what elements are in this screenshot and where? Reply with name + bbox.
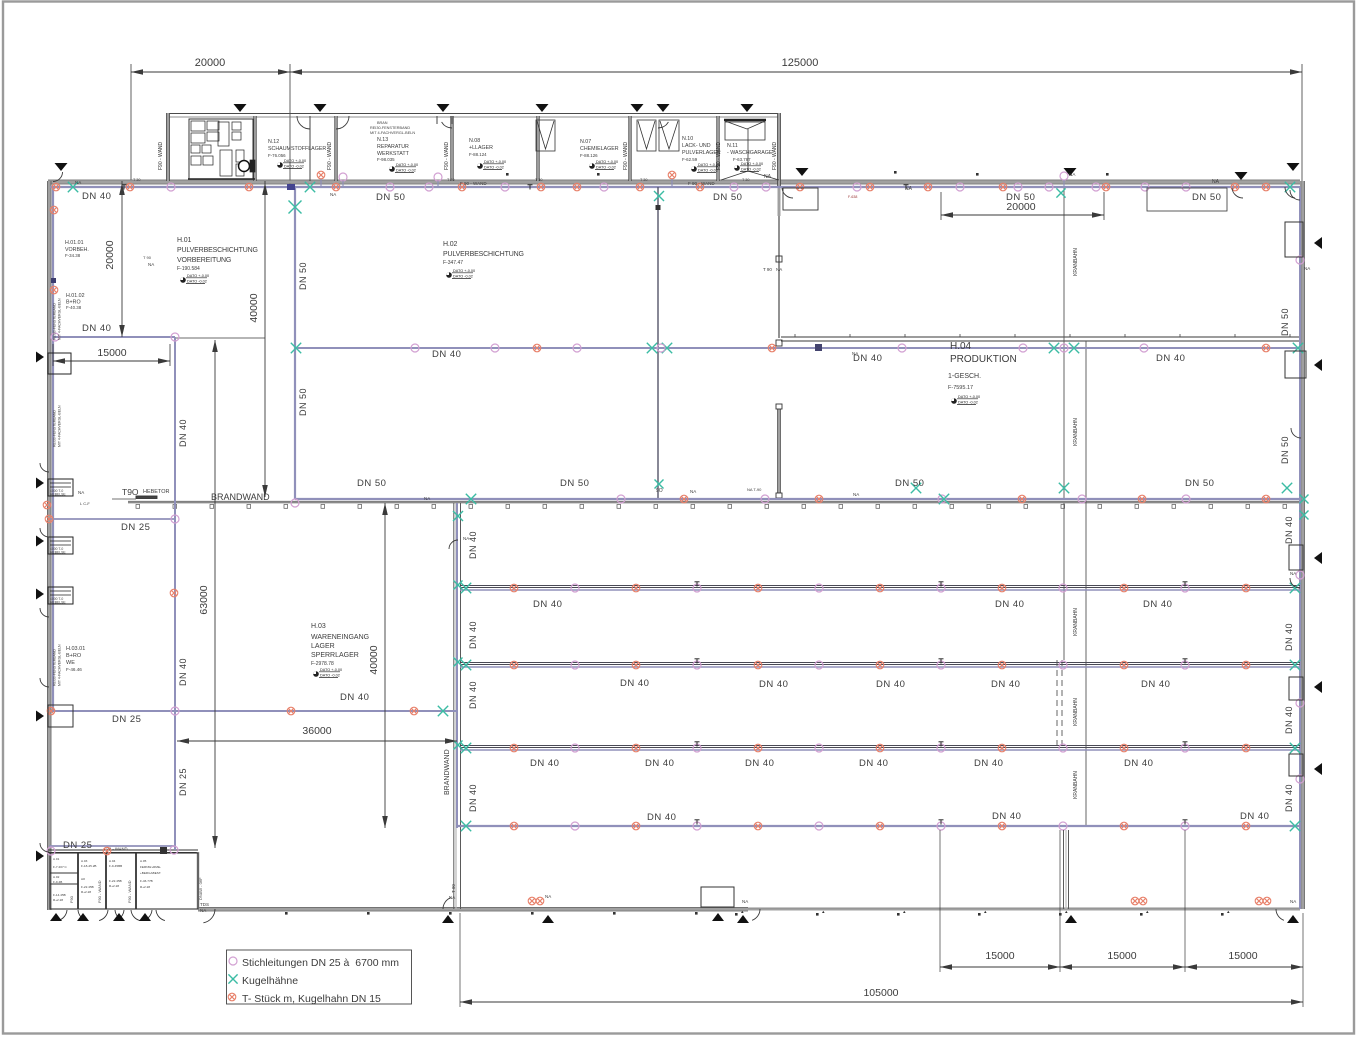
svg-text:VORBEREITUNG: VORBEREITUNG: [177, 257, 231, 264]
svg-text:MIT 4-FACHVERGL-BELN: MIT 4-FACHVERGL-BELN: [58, 405, 62, 447]
wall: thin partition x=310: [309, 116, 311, 181]
svg-text:KRANBAHN: KRANBAHN: [1073, 608, 1079, 636]
svg-text:DN 25: DN 25: [112, 714, 141, 725]
svg-text:20000: 20000: [104, 240, 116, 269]
svg-text:F-7.207 C: F-7.207 C: [53, 865, 68, 869]
svg-text:PULVERLAGER: PULVERLAGER: [682, 150, 721, 156]
svg-text:REI30-FENSTERBAND: REI30-FENSTERBAND: [370, 126, 410, 130]
extension line y=338: [175, 337, 265, 339]
svg-text:F90 - WAND: F90 - WAND: [444, 141, 450, 170]
svg-text:DN 50: DN 50: [713, 192, 742, 203]
svg-text:WARENEINGANG: WARENEINGANG: [311, 634, 369, 641]
svg-text:15000: 15000: [985, 950, 1014, 962]
wall: x=779 upper partition: [778, 186, 780, 338]
svg-text:BRANDWAND: BRANDWAND: [211, 492, 270, 502]
svg-text:F-14.45B: F-14.45B: [53, 893, 66, 897]
svg-text:NA: NA: [1304, 266, 1310, 271]
svg-text:H.01: H.01: [177, 237, 191, 244]
svg-text:F-22.45B: F-22.45B: [109, 879, 122, 883]
svg-text:SCHAUMSTOFFLAGER: SCHAUMSTOFFLAGER: [268, 146, 326, 152]
dimension 20000 vertical left: [121, 181, 123, 337]
svg-text:DATO -0.02: DATO -0.02: [284, 165, 304, 169]
svg-text:DN 40: DN 40: [992, 811, 1021, 822]
svg-text:20000: 20000: [1006, 201, 1035, 213]
svg-text:DN 40: DN 40: [178, 419, 188, 447]
fittings riser x=175: [170, 589, 178, 597]
svg-text:F-40.38: F-40.38: [66, 305, 82, 310]
svg-text:F90 - WAND: F90 - WAND: [97, 880, 102, 903]
svg-text:A#: A#: [81, 877, 85, 881]
svg-text:TDS: TDS: [200, 902, 209, 907]
svg-text:F-46.77B: F-46.77B: [140, 879, 153, 883]
svg-text:F90 - WAND: F90 - WAND: [127, 880, 132, 903]
svg-text:DN 40: DN 40: [647, 812, 676, 823]
upper hall door arcs: [782, 188, 793, 198]
svg-text:LACK- UND: LACK- UND: [682, 143, 711, 149]
svg-text:DN 40: DN 40: [82, 323, 111, 334]
wall marks bottom: [285, 911, 1230, 916]
svg-text:T 90: T 90: [451, 884, 456, 893]
svg-text:H.04: H.04: [950, 341, 972, 352]
svg-text:DN 40: DN 40: [1124, 758, 1153, 769]
washgarage bay: [721, 120, 779, 180]
svg-text:DN 25: DN 25: [121, 522, 150, 533]
legend kugelhaehne: [228, 974, 237, 983]
fittings bottom wall: [528, 897, 536, 905]
pipe vertical DN50 x=658: [657, 187, 659, 499]
svg-text:KRANBAHN: KRANBAHN: [1073, 771, 1079, 799]
svg-text:H.03.01: H.03.01: [66, 646, 85, 652]
svg-text:DATO -0.02: DATO -0.02: [698, 169, 718, 173]
svg-text:F-9.4B: F-9.4B: [53, 880, 62, 884]
kranbahn rail 1: [1063, 186, 1065, 499]
svg-text:N.12: N.12: [268, 139, 279, 145]
svg-text:DN 40: DN 40: [1284, 516, 1294, 544]
svg-text:F-22.45B: F-22.45B: [81, 885, 94, 889]
svg-text:DATO -0.02: DATO -0.02: [453, 275, 473, 279]
svg-text:DATO -0.02: DATO -0.02: [484, 166, 504, 170]
svg-text:NA: NA: [463, 536, 469, 541]
svg-text:H.01.01: H.01.01: [65, 240, 84, 246]
svg-text:DN 40: DN 40: [974, 758, 1003, 769]
left wall door arcs: [40, 463, 49, 472]
svg-text:DATO +-0.00: DATO +-0.00: [187, 274, 209, 278]
dimension 20000 top right: [941, 214, 1104, 216]
svg-text:F90 - WAND: F90 - WAND: [327, 141, 333, 170]
fittings DN25 y=519: [45, 515, 53, 523]
dimension 20000 top-left: [131, 71, 290, 73]
svg-text:F-18-45.2B: F-18-45.2B: [81, 864, 96, 868]
pipe DN40/DN50 main top run y=187: [50, 186, 1300, 188]
pipe left riser x=53: [52, 187, 54, 712]
svg-text:DATO +-0.00: DATO +-0.00: [484, 160, 506, 164]
opening N.13/N.08: [436, 116, 438, 124]
wall: partition WC/N.12: [254, 116, 257, 181]
right wall door triangles: [1314, 237, 1322, 249]
left wall roller doors: [48, 353, 71, 374]
svg-text:F90 - WAND: F90 - WAND: [623, 141, 629, 170]
svg-text:CHEMIELAGER: CHEMIELAGER: [580, 146, 619, 152]
svg-text:PULVERBESCHICHTUNG: PULVERBESCHICHTUNG: [443, 251, 524, 258]
pipe DN40 branch y=711: [50, 710, 457, 712]
svg-text:F-76.056: F-76.056: [268, 153, 286, 158]
gate symbol N.07 left: [536, 120, 555, 151]
svg-text:DN 40: DN 40: [1141, 679, 1170, 690]
pipe rack run DN40 y=665: [460, 662, 1300, 664]
pipe vertical right wall x=1297: [1299, 187, 1301, 909]
svg-text:H.03: H.03: [311, 623, 326, 630]
pipe DN25 branch y=519: [49, 518, 175, 520]
svg-text:DN 40: DN 40: [745, 758, 774, 769]
svg-text:R+2.28: R+2.28: [140, 885, 150, 889]
svg-text:KRANBAHN: KRANBAHN: [1073, 698, 1079, 726]
svg-text:DN 40: DN 40: [468, 784, 478, 812]
svg-text:DATO +-0.00: DATO +-0.00: [698, 163, 720, 167]
pipe DN50 run y=499: [295, 498, 1300, 500]
svg-text:DN 40: DN 40: [468, 531, 478, 559]
svg-text:NA: NA: [449, 895, 455, 900]
svg-text:DN 25: DN 25: [178, 768, 188, 796]
wall: firewall horizontal y=503: [128, 502, 1300, 504]
svg-text:NA: NA: [764, 174, 772, 180]
svg-text:MIT 4-FACHVERGL-BELN: MIT 4-FACHVERGL-BELN: [58, 644, 62, 686]
legend box: [227, 950, 412, 1004]
svg-text:- WASCHGARAGE: - WASCHGARAGE: [727, 150, 773, 156]
wall: building bottom outer: [198, 908, 748, 911]
svg-text:1-GESCH.: 1-GESCH.: [948, 373, 981, 380]
svg-text:REI30-FENSTERBAND: REI30-FENSTERBAND: [53, 303, 57, 340]
svg-text:HEBELSE: HEBELSE: [50, 551, 66, 555]
svg-text:40000: 40000: [368, 645, 380, 674]
dimension 36000: [177, 740, 457, 742]
svg-text:DN 40: DN 40: [1143, 599, 1172, 610]
svg-text:15000: 15000: [97, 347, 126, 359]
svg-text:NA: NA: [78, 490, 84, 495]
pipe run DN40 y=826: [457, 825, 1300, 827]
dimension 63000 vertical: [214, 340, 216, 848]
fittings on main top run: [52, 183, 60, 191]
dimensions 15000 x3 bottom: [940, 966, 1303, 968]
wall: x=779 lower segment: [778, 404, 781, 499]
svg-text:R+2.28: R+2.28: [81, 890, 91, 894]
pipe DN25 annex y=845: [49, 845, 175, 847]
svg-text:DATO +-0.00: DATO +-0.00: [958, 395, 980, 399]
svg-text:A.01: A.01: [53, 857, 60, 861]
bottom hall interior walls: [1063, 830, 1065, 909]
svg-text:A.04: A.04: [109, 859, 116, 863]
svg-text:MIT 4-FACHVERGL-BELN: MIT 4-FACHVERGL-BELN: [370, 131, 415, 135]
svg-text:L C-F: L C-F: [80, 501, 90, 506]
dimension 15000 left: [53, 360, 170, 362]
svg-text:R+2.28: R+2.28: [109, 884, 119, 888]
right wall NA doors: [1290, 578, 1300, 588]
svg-text:9O: 9O: [656, 488, 663, 494]
wall: partition N.08/N.07: [537, 116, 540, 181]
pipe DN40 riser x=175: [174, 337, 176, 850]
svg-text:NA: NA: [776, 267, 782, 272]
svg-text:T 90: T 90: [143, 255, 152, 260]
svg-text:F 90 - WAND: F 90 - WAND: [460, 181, 487, 186]
svg-text:HEBELSE: HEBELSE: [50, 601, 66, 605]
svg-text:R+2.28: R+2.28: [53, 898, 63, 902]
svg-text:F-62.59: F-62.59: [682, 157, 698, 162]
svg-text:F-9-45BB: F-9-45BB: [109, 864, 122, 868]
svg-text:T 30: T 30: [447, 178, 455, 182]
svg-text:DN 40: DN 40: [340, 692, 369, 703]
wall: BRANDWAND vertical x=457: [453, 503, 455, 909]
fittings y=337 left: [51, 333, 59, 341]
dimension 40000 vertical H.03: [384, 503, 386, 828]
svg-text:DN 50: DN 50: [298, 262, 308, 290]
svg-text:DATO -0.02: DATO -0.02: [741, 168, 761, 172]
svg-text:DATO -0.02: DATO -0.02: [320, 674, 340, 678]
pipe DN40 left branch y=337: [53, 336, 175, 338]
svg-text:NA: NA: [853, 492, 859, 497]
svg-text:DN 50: DN 50: [376, 192, 405, 203]
svg-text:NA: NA: [742, 899, 748, 904]
fittings mid run y=348: [291, 343, 301, 353]
svg-text:F-88.124: F-88.124: [469, 152, 487, 157]
right wall docks: [1285, 222, 1303, 257]
svg-text:N.08: N.08: [469, 138, 480, 144]
svg-text:DN 40: DN 40: [178, 658, 188, 686]
gate symbols N.10: [637, 120, 656, 151]
pipe rack run DN40 y=748: [460, 745, 1300, 747]
svg-text:T9O: T9O: [122, 487, 139, 497]
legend t-stueck: [228, 993, 236, 1001]
svg-text:F90 - WAND: F90 - WAND: [158, 141, 164, 170]
svg-text:DATO -0.02: DATO -0.02: [596, 166, 616, 170]
pipe vertical DN50 x=295: [294, 187, 296, 499]
wall: building left outer: [48, 181, 51, 910]
svg-text:15000: 15000: [1228, 950, 1257, 962]
upper hall small rects: [783, 188, 818, 210]
svg-text:REI30-FENSTERBAND: REI30-FENSTERBAND: [53, 410, 57, 447]
svg-text:N.10: N.10: [682, 136, 693, 142]
svg-text:DN 40: DN 40: [1240, 811, 1269, 822]
annex door arcs: [58, 910, 67, 921]
svg-text:NA: NA: [1290, 571, 1296, 576]
pipe riser BRANDWAND x=457: [456, 503, 458, 828]
svg-text:WE: WE: [66, 660, 75, 666]
svg-text:N.07: N.07: [580, 139, 591, 145]
svg-text:DATO +-0.00: DATO +-0.00: [284, 159, 306, 163]
svg-text:A.03: A.03: [81, 859, 88, 863]
svg-text:F-2978.78: F-2978.78: [311, 661, 334, 667]
svg-text:KRANBAHN: KRANBAHN: [1073, 248, 1079, 276]
svg-text:NA: NA: [200, 908, 206, 913]
svg-text:H.01.02: H.01.02: [66, 293, 85, 299]
svg-text:DN 40: DN 40: [432, 349, 461, 360]
svg-text:DN 40: DN 40: [1284, 623, 1294, 651]
svg-text:N.13: N.13: [377, 137, 388, 143]
svg-text:DN 50: DN 50: [1280, 436, 1290, 464]
svg-text:F90 - WAND: F90 - WAND: [772, 141, 778, 170]
pipe rack run DN40 y=588: [460, 585, 1300, 587]
dimension 40000 vertical H.01: [264, 181, 266, 497]
svg-text:20000: 20000: [195, 57, 226, 69]
dimension 125000 top: [290, 71, 1302, 73]
svg-text:DN 40: DN 40: [1284, 784, 1294, 812]
svg-text:NA T-90: NA T-90: [747, 487, 762, 492]
svg-text:DN 50: DN 50: [1192, 192, 1221, 203]
svg-text:DN 40: DN 40: [876, 679, 905, 690]
svg-text:DN 40: DN 40: [620, 678, 649, 689]
svg-text:DATO -0.02: DATO -0.02: [396, 169, 416, 173]
svg-text:A.05: A.05: [140, 859, 147, 863]
fittings DN50 run y=499: [617, 495, 625, 503]
svg-text:DN 50: DN 50: [1185, 478, 1214, 489]
kranbahn top valve: [1060, 172, 1068, 180]
wall: partition N.07/N.10: [629, 116, 632, 181]
fittings right riser: [1296, 256, 1304, 264]
svg-text:FERNW+RME-: FERNW+RME-: [140, 865, 161, 869]
svg-text:Stichleitungen DN 25 à 6700 m: Stichleitungen DN 25 à 6700 mm: [242, 957, 399, 969]
svg-text:DN 40: DN 40: [468, 681, 478, 709]
svg-text:DN 40: DN 40: [530, 758, 559, 769]
wall: building top outer: [48, 181, 1300, 184]
svg-text:DATO +-0.00: DATO +-0.00: [596, 160, 618, 164]
svg-text:DN 40: DN 40: [82, 191, 111, 202]
svg-text:F-347.47: F-347.47: [443, 260, 463, 266]
svg-text:F-88.126: F-88.126: [580, 153, 598, 158]
sanitary room fixtures: [188, 119, 255, 179]
svg-text:DN 50: DN 50: [357, 478, 386, 489]
dimension 105000: [460, 1001, 1303, 1003]
svg-text:DATO +-0.00: DATO +-0.00: [453, 269, 475, 273]
svg-text:NA: NA: [75, 180, 81, 185]
svg-text:BRANDWAND: BRANDWAND: [444, 749, 451, 795]
svg-text:NA: NA: [1212, 179, 1220, 185]
svg-text:A.02: A.02: [53, 875, 60, 879]
svg-text:NA: NA: [852, 351, 858, 356]
svg-text:36000: 36000: [302, 725, 331, 737]
svg-text:DATO +-0.00: DATO +-0.00: [396, 163, 418, 167]
svg-text:KRANBAHN: KRANBAHN: [1073, 418, 1079, 446]
svg-text:15000: 15000: [1107, 950, 1136, 962]
svg-text:F-190.584: F-190.584: [177, 266, 200, 272]
svg-text:NA: NA: [1069, 172, 1076, 177]
svg-text:40000: 40000: [248, 293, 260, 322]
wall: partition N.13/N.08: [451, 116, 454, 181]
kranbahn rail 2: [1085, 341, 1087, 825]
svg-text:F-34.38: F-34.38: [65, 253, 81, 258]
svg-text:DN 40: DN 40: [1156, 353, 1185, 364]
svg-text:DN 50: DN 50: [895, 478, 924, 489]
wall: partition N.12/N.13: [335, 116, 338, 181]
svg-text:DNAW - 06F: DNAW - 06F: [198, 877, 203, 900]
svg-text:+LLAGER: +LLAGER: [469, 145, 493, 151]
svg-text:NA: NA: [148, 262, 154, 267]
svg-text:T 30: T 30: [742, 178, 750, 182]
svg-text:SPERRLAGER: SPERRLAGER: [311, 652, 359, 659]
svg-text:DN 40: DN 40: [995, 599, 1024, 610]
svg-text:DN 25: DN 25: [63, 840, 92, 851]
svg-text:LAGER: LAGER: [311, 643, 335, 650]
svg-text:F90: F90: [69, 895, 74, 903]
left wall door triangles: [36, 352, 44, 363]
wall: building right outer: [1301, 181, 1304, 909]
svg-text:DN 50: DN 50: [560, 478, 589, 489]
fittings annex y=848: [47, 847, 55, 855]
svg-text:F 90 - WAND: F 90 - WAND: [688, 181, 715, 186]
svg-text:DATO +-0.00: DATO +-0.00: [741, 162, 763, 166]
svg-text:T 90: T 90: [763, 267, 772, 272]
svg-text:F-98.035: F-98.035: [377, 157, 395, 162]
svg-text:REPARATUR: REPARATUR: [377, 144, 409, 150]
svg-text:T- Stück m, Kugelhahn DN 15: T- Stück m, Kugelhahn DN 15: [242, 993, 381, 1005]
svg-text:NA: NA: [424, 496, 430, 501]
svg-text:T 30: T 30: [535, 178, 543, 182]
left wall box DN25: [48, 705, 73, 727]
svg-text:DATO +-0.00: DATO +-0.00: [320, 668, 342, 672]
svg-text:H.02: H.02: [443, 241, 457, 248]
svg-text:B+RO: B+RO: [66, 653, 82, 659]
bottom-left annex rooms: [48, 849, 198, 851]
svg-text:BRAN: BRAN: [377, 121, 388, 125]
svg-text:Kugelhähne: Kugelhähne: [242, 975, 298, 987]
wall: top rooms right end: [778, 113, 781, 186]
svg-text:DATO -0.02: DATO -0.02: [958, 401, 978, 405]
svg-text:REI30-FENSTERBAND: REI30-FENSTERBAND: [53, 649, 57, 686]
svg-text:DATO -0.02: DATO -0.02: [187, 280, 207, 284]
svg-text:HEBELSE: HEBELSE: [50, 493, 66, 497]
kranbahn dashed rail: [1056, 660, 1058, 748]
entrance triangles top: [234, 104, 247, 112]
fittings DN40 y=711: [287, 707, 295, 715]
svg-text:NA: NA: [330, 192, 336, 197]
svg-text:125000: 125000: [782, 57, 819, 69]
wall: y=339 north edge of production hall: [781, 336, 1300, 338]
svg-text:DN 40: DN 40: [1284, 706, 1294, 734]
svg-text:DN 40: DN 40: [759, 679, 788, 690]
svg-text:T 30: T 30: [133, 178, 141, 182]
pipe mid run DN40 y=348: [295, 347, 1300, 349]
wall: top rooms left end F90: [167, 113, 170, 181]
svg-text:F-7595.17: F-7595.17: [948, 385, 973, 391]
legend stichleitungen: [229, 957, 237, 965]
svg-text:T 30: T 30: [640, 178, 648, 182]
svg-text:DN 40: DN 40: [859, 758, 888, 769]
svg-text:NA: NA: [905, 186, 913, 192]
svg-text:NA: NA: [545, 894, 551, 899]
svg-text:NA: NA: [690, 489, 696, 494]
svg-text:PRODUKTION: PRODUKTION: [950, 354, 1017, 365]
svg-text:DN 50: DN 50: [1280, 308, 1290, 336]
fittings riser x=457: [454, 581, 463, 590]
svg-text:63000: 63000: [198, 585, 210, 614]
svg-text:DN 50: DN 50: [298, 388, 308, 416]
fittings rack runs: [510, 584, 518, 592]
svg-text:DN 40: DN 40: [468, 621, 478, 649]
wall: top rooms outer (north): [168, 113, 780, 115]
svg-text:PULVERBESCHICHTUNG: PULVERBESCHICHTUNG: [177, 247, 258, 254]
svg-text:N.11: N.11: [727, 143, 738, 149]
svg-text:DN 40: DN 40: [645, 758, 674, 769]
svg-text:MIT 4-FACHVERGL-BELN: MIT 4-FACHVERGL-BELN: [58, 298, 62, 340]
svg-text:DN 40: DN 40: [991, 679, 1020, 690]
svg-text:F-638: F-638: [848, 195, 857, 199]
svg-text:F-46.46: F-46.46: [66, 667, 82, 672]
svg-text:+BERGABEST.: +BERGABEST.: [140, 871, 161, 875]
svg-text:105000: 105000: [863, 987, 898, 999]
svg-text:HEBETOR: HEBETOR: [143, 489, 170, 495]
svg-text:DN 40: DN 40: [533, 599, 562, 610]
svg-text:NA: NA: [1290, 899, 1296, 904]
wall: partition N.10/N.11: [717, 116, 720, 181]
